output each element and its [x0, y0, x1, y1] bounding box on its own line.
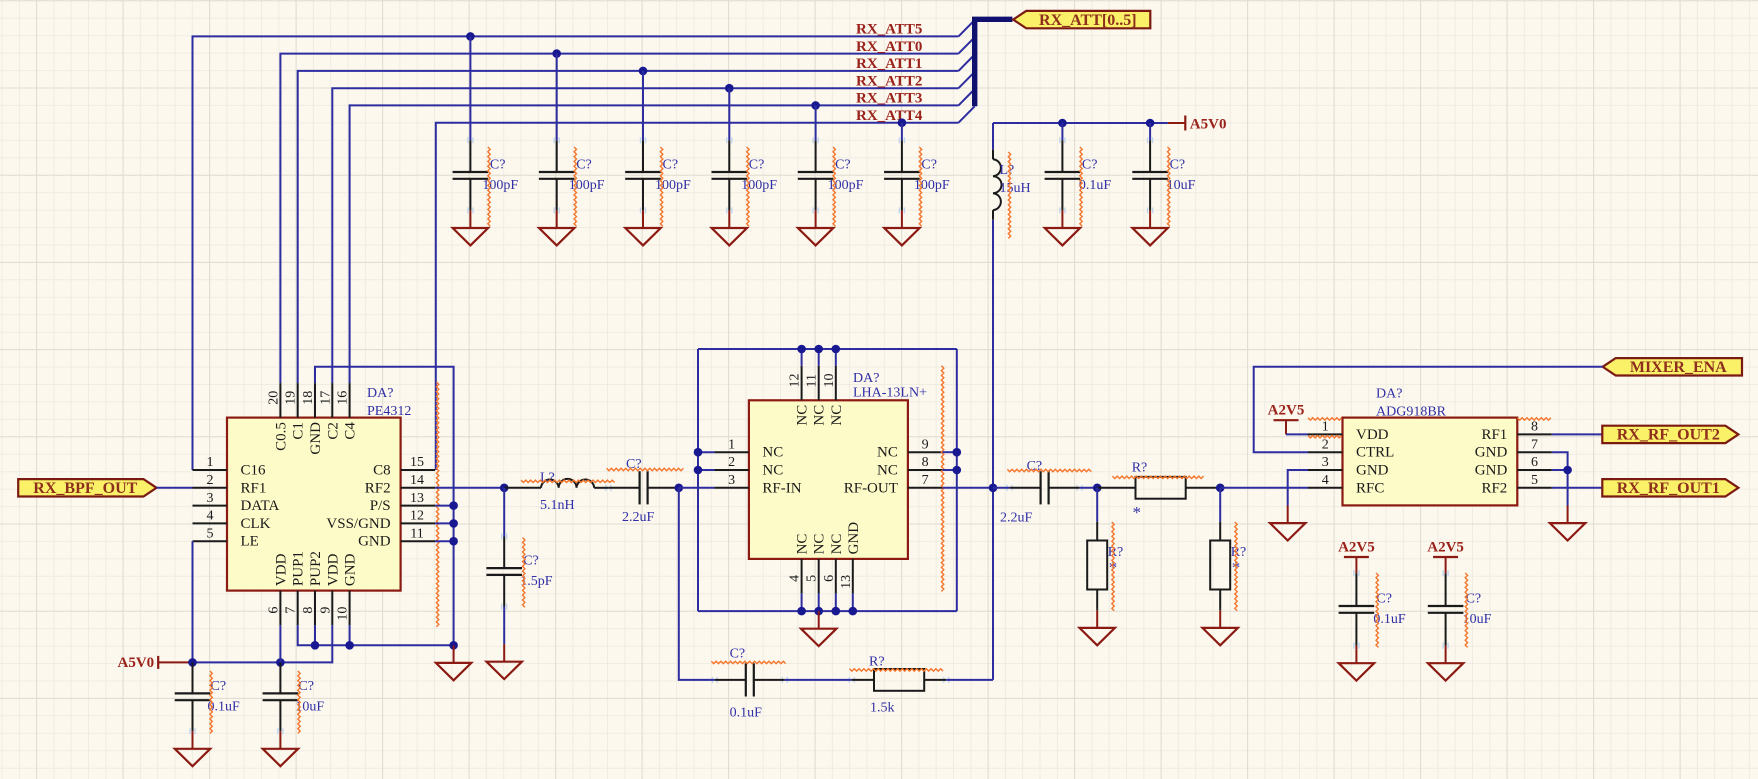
svg-text:RX_ATT5: RX_ATT5	[856, 22, 922, 38]
svg-text:13: 13	[410, 491, 424, 506]
svg-text:15uH: 15uH	[1000, 181, 1031, 196]
svg-text:10: 10	[336, 607, 351, 621]
svg-text:C1: C1	[291, 422, 307, 440]
svg-text:4: 4	[788, 575, 803, 582]
svg-text:10uF: 10uF	[1167, 178, 1196, 193]
svg-text:RX_ATT1: RX_ATT1	[856, 56, 922, 72]
svg-text:VDD: VDD	[325, 553, 341, 586]
svg-text:C?: C?	[1170, 158, 1186, 173]
svg-text:P/S: P/S	[370, 498, 391, 514]
svg-text:14: 14	[410, 473, 424, 488]
svg-text:2: 2	[207, 473, 214, 488]
svg-text:11: 11	[805, 374, 820, 387]
svg-text:0.1uF: 0.1uF	[730, 706, 763, 721]
svg-text:13: 13	[839, 575, 854, 589]
svg-text:12: 12	[410, 509, 424, 524]
svg-text:7: 7	[284, 607, 299, 614]
svg-text:DA?: DA?	[853, 371, 879, 386]
svg-text:CLK: CLK	[241, 516, 271, 532]
svg-text:RF1: RF1	[1481, 427, 1507, 443]
svg-text:RF-OUT: RF-OUT	[844, 480, 898, 496]
svg-text:2: 2	[728, 455, 735, 470]
svg-text:A5V0: A5V0	[118, 655, 155, 671]
svg-text:RX_ATT2: RX_ATT2	[856, 73, 922, 89]
svg-text:MIXER_ENA: MIXER_ENA	[1630, 359, 1727, 376]
svg-text:LE: LE	[241, 534, 259, 550]
svg-text:6: 6	[1531, 455, 1538, 470]
svg-text:5.1nH: 5.1nH	[540, 498, 575, 513]
svg-text:R?: R?	[869, 654, 885, 669]
svg-text:3: 3	[1322, 455, 1329, 470]
svg-text:1.5k: 1.5k	[870, 701, 895, 716]
svg-text:4: 4	[207, 509, 214, 524]
svg-text:2: 2	[1322, 437, 1329, 452]
svg-text:NC: NC	[795, 405, 811, 426]
svg-text:C?: C?	[211, 679, 227, 694]
svg-text:C?: C?	[576, 158, 592, 173]
svg-text:GND: GND	[1475, 463, 1508, 479]
svg-text:6: 6	[822, 575, 837, 582]
svg-text:RX_ATT3: RX_ATT3	[856, 91, 922, 107]
svg-text:2.2uF: 2.2uF	[1000, 511, 1033, 526]
svg-text:2.2uF: 2.2uF	[622, 510, 655, 525]
svg-text:3: 3	[207, 491, 214, 506]
svg-text:6: 6	[266, 607, 281, 614]
svg-text:A2V5: A2V5	[1427, 540, 1464, 556]
svg-text:NC: NC	[762, 463, 783, 479]
svg-text:C?: C?	[749, 158, 765, 173]
svg-text:9: 9	[922, 437, 929, 452]
svg-text:5: 5	[207, 526, 214, 541]
svg-text:GND: GND	[846, 522, 862, 555]
svg-text:GND: GND	[1356, 463, 1389, 479]
svg-text:RF-IN: RF-IN	[762, 480, 801, 496]
svg-text:RX_ATT0: RX_ATT0	[856, 39, 922, 55]
svg-text:RX_RF_OUT1: RX_RF_OUT1	[1617, 480, 1720, 497]
svg-text:C0.5: C0.5	[273, 422, 289, 451]
svg-text:CTRL: CTRL	[1356, 445, 1394, 461]
svg-text:A2V5: A2V5	[1268, 403, 1305, 419]
svg-text:3: 3	[728, 473, 735, 488]
svg-text:VDD: VDD	[1356, 427, 1389, 443]
svg-text:PE4312: PE4312	[367, 404, 411, 419]
svg-text:NC: NC	[795, 534, 811, 555]
svg-text:5: 5	[805, 575, 820, 582]
svg-text:C?: C?	[298, 679, 314, 694]
svg-text:0.1uF: 0.1uF	[1079, 178, 1112, 193]
svg-text:LHA-13LN+: LHA-13LN+	[853, 386, 927, 401]
svg-text:VSS/GND: VSS/GND	[326, 516, 390, 532]
svg-text:RFC: RFC	[1356, 480, 1384, 496]
svg-text:VDD: VDD	[273, 553, 289, 586]
svg-text:C2: C2	[325, 422, 341, 440]
svg-text:ADG918BR: ADG918BR	[1376, 405, 1447, 420]
svg-text:8: 8	[922, 455, 929, 470]
svg-text:C8: C8	[373, 463, 391, 479]
svg-text:C?: C?	[490, 158, 506, 173]
svg-text:NC: NC	[762, 445, 783, 461]
svg-text:R?: R?	[1132, 461, 1148, 476]
svg-text:9: 9	[318, 607, 333, 614]
svg-text:10: 10	[822, 374, 837, 388]
svg-text:GND: GND	[308, 422, 324, 455]
svg-text:4: 4	[1322, 473, 1329, 488]
svg-text:RX_ATT4: RX_ATT4	[856, 108, 923, 124]
svg-text:GND: GND	[1475, 445, 1508, 461]
svg-text:15: 15	[410, 455, 424, 470]
svg-text:7: 7	[1531, 437, 1538, 452]
svg-text:A5V0: A5V0	[1190, 117, 1227, 133]
svg-text:C?: C?	[1082, 158, 1098, 173]
svg-text:RF1: RF1	[241, 480, 267, 496]
svg-text:C4: C4	[343, 422, 359, 440]
svg-text:GND: GND	[343, 553, 359, 586]
svg-text:NC: NC	[812, 534, 828, 555]
svg-text:C?: C?	[663, 158, 679, 173]
svg-text:DATA: DATA	[241, 498, 280, 514]
svg-text:C?: C?	[523, 554, 539, 569]
svg-text:NC: NC	[877, 463, 898, 479]
svg-text:1: 1	[207, 455, 214, 470]
svg-text:RF2: RF2	[365, 480, 391, 496]
svg-text:C?: C?	[730, 647, 746, 662]
svg-text:12: 12	[788, 374, 803, 388]
svg-text:RX_BPF_OUT: RX_BPF_OUT	[33, 480, 137, 497]
svg-text:L?: L?	[1000, 163, 1015, 178]
svg-text:C?: C?	[921, 158, 937, 173]
svg-text:PUP1: PUP1	[291, 551, 307, 586]
svg-text:16: 16	[336, 391, 351, 405]
svg-text:1.5pF: 1.5pF	[520, 574, 553, 589]
svg-text:GND: GND	[358, 534, 391, 550]
svg-text:C16: C16	[241, 463, 267, 479]
svg-text:DA?: DA?	[1376, 386, 1402, 401]
svg-text:C?: C?	[835, 158, 851, 173]
svg-text:8: 8	[1531, 420, 1538, 435]
svg-text:1: 1	[1322, 420, 1329, 435]
svg-text:NC: NC	[829, 534, 845, 555]
svg-text:RX_ATT[0..5]: RX_ATT[0..5]	[1039, 12, 1136, 29]
svg-text:7: 7	[922, 473, 929, 488]
svg-text:11: 11	[410, 526, 423, 541]
svg-text:17: 17	[318, 391, 333, 405]
svg-text:NC: NC	[812, 405, 828, 426]
svg-text:1: 1	[728, 437, 735, 452]
svg-text:5: 5	[1531, 473, 1538, 488]
svg-text:RX_RF_OUT2: RX_RF_OUT2	[1617, 427, 1720, 444]
svg-text:A2V5: A2V5	[1338, 540, 1375, 556]
svg-text:PUP2: PUP2	[308, 551, 324, 586]
svg-text:DA?: DA?	[367, 386, 393, 401]
svg-text:20: 20	[266, 391, 281, 405]
svg-text:*: *	[1133, 503, 1142, 522]
svg-text:19: 19	[284, 391, 299, 405]
svg-text:NC: NC	[829, 405, 845, 426]
svg-text:8: 8	[301, 607, 316, 614]
svg-text:NC: NC	[877, 445, 898, 461]
svg-text:18: 18	[301, 391, 316, 405]
svg-text:RF2: RF2	[1481, 480, 1507, 496]
